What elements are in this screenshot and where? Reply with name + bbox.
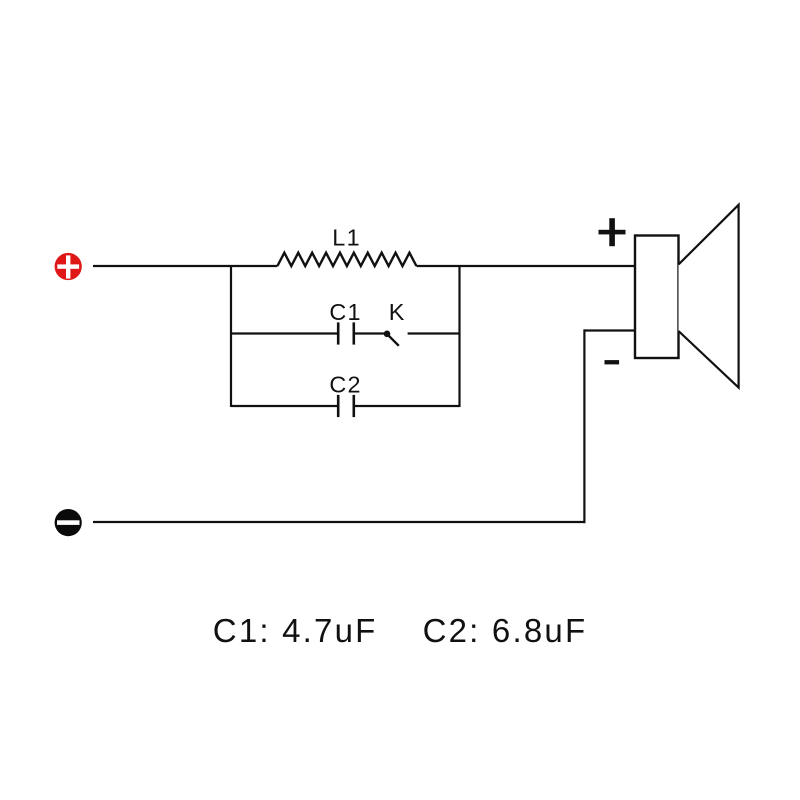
capacitor C2 (338, 395, 354, 417)
wire vertical run down (583, 329, 585, 523)
wire bottom branch left segment (231, 405, 338, 407)
wire from L1 to speaker (416, 265, 636, 267)
inductor L1 (zigzag) (277, 253, 416, 266)
label - at speaker (605, 360, 620, 364)
capacitor C1 (338, 322, 354, 344)
terminal + (positive input) (55, 253, 82, 280)
wire middle branch left segment (231, 332, 338, 334)
wire from + terminal to L1 (93, 265, 277, 267)
wire from speaker negative to vertical run (584, 329, 636, 331)
svg-text:L1: L1 (332, 225, 361, 251)
wire right junction vertical (node B) (458, 265, 460, 407)
wire from C2 to right junction (354, 405, 460, 407)
wire from switch K to right junction (408, 332, 460, 334)
switch K (open blade) (384, 331, 399, 346)
terminal - (negative input) (55, 509, 82, 536)
wire to - terminal (93, 521, 586, 523)
wire from C1 to switch K (354, 332, 385, 334)
svg-text:C1: C1 (329, 299, 362, 325)
speaker cone (679, 205, 739, 388)
svg-text:C1: 4.7uF: C1: 4.7uF (213, 612, 378, 649)
svg-text:C2: 6.8uF: C2: 6.8uF (423, 612, 588, 649)
svg-text:K: K (389, 299, 405, 325)
speaker driver body (635, 236, 679, 359)
label + at speaker (599, 218, 626, 246)
svg-text:C2: C2 (329, 372, 362, 398)
wire left junction vertical (node A) (230, 265, 232, 407)
